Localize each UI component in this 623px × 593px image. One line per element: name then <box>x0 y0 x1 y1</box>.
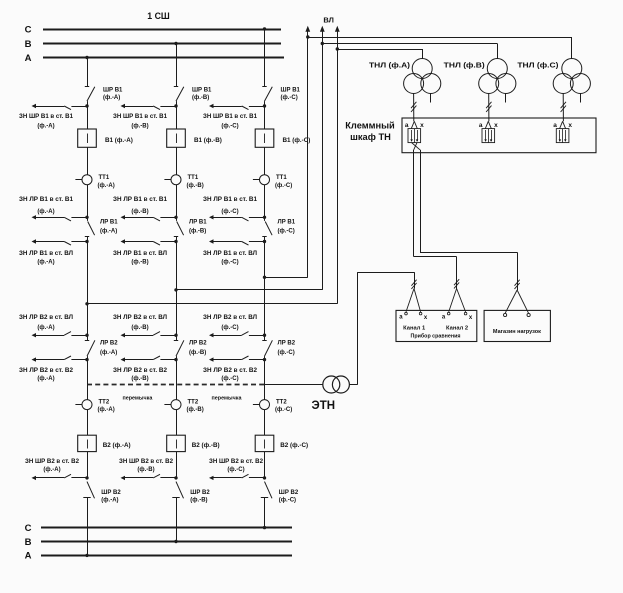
current transformer ТТ1 (С) <box>253 147 292 189</box>
svg-text:ЛР В2: ЛР В2 <box>189 341 207 347</box>
svg-text:В2 (ф.-В): В2 (ф.-В) <box>192 442 220 449</box>
svg-text:(ф.-А): (ф.-А) <box>37 208 54 215</box>
svg-text:В1 (ф.-С): В1 (ф.-С) <box>283 137 311 144</box>
wire ЛР В1 to branch node (С) <box>264 242 266 278</box>
svg-text:ЗН ЛР В2 в ст. В2: ЗН ЛР В2 в ст. В2 <box>19 368 74 374</box>
wire ЛР В1 to branch node (А) <box>87 242 89 304</box>
earth switch ЗН ШР В1 в ст. В1 (А) <box>19 104 89 130</box>
svg-text:ТНЛ (ф.В): ТНЛ (ф.В) <box>444 61 486 70</box>
svg-text:(ф.-В): (ф.-В) <box>131 122 148 129</box>
wire jumper to ЭТН <box>265 384 323 386</box>
svg-text:ТТ2: ТТ2 <box>99 399 110 405</box>
svg-text:(ф.-С): (ф.-С) <box>221 208 238 215</box>
bus A (top) <box>25 53 284 64</box>
earth switch ЗН ЛР В2 в ст. В2 (А) <box>19 356 89 382</box>
svg-text:ТТ1: ТТ1 <box>276 175 287 181</box>
svg-text:ШР В1: ШР В1 <box>103 87 123 93</box>
label ВЛ <box>323 16 334 25</box>
svg-text:(ф.-В): (ф.-В) <box>192 94 209 101</box>
wire bus to ШР В1 (С) <box>263 27 266 86</box>
circuit breaker В1 (А) <box>78 106 133 147</box>
svg-text:(ф.-А): (ф.-А) <box>37 258 54 265</box>
wire ТНЛ a to Канал 2 <box>414 150 457 277</box>
svg-text:ТТ1: ТТ1 <box>188 175 199 181</box>
svg-text:x: x <box>568 122 572 129</box>
wire branch to ВЛ riser (С) <box>265 32 308 278</box>
svg-text:(ф.-С): (ф.-С) <box>221 122 238 129</box>
stub ТНЛ (ф.А) terminal x <box>430 94 432 103</box>
earth switch ЗН ЛР В1 в ст. ВЛ (В) <box>113 239 178 265</box>
disconnector ШР В1 (В) <box>174 87 212 107</box>
earth switch ЗН ЛР В1 в ст. ВЛ (А) <box>19 239 89 265</box>
wire pair to Магазин terminals <box>505 278 528 314</box>
wire ЛР В1 to branch node (В) <box>176 242 178 290</box>
svg-text:ШР В2: ШР В2 <box>279 490 299 496</box>
svg-text:Прибор сравнения: Прибор сравнения <box>411 333 461 340</box>
svg-text:(ф.-С): (ф.-С) <box>278 349 295 356</box>
bus C (bottom) <box>25 523 292 534</box>
svg-text:(ф.-С): (ф.-С) <box>221 375 238 382</box>
svg-text:ЗН ШР В2 в ст. В2: ЗН ШР В2 в ст. В2 <box>209 459 264 465</box>
current transformer ТТ2 (В) <box>164 360 203 414</box>
disconnector ШР В1 (А) <box>85 87 123 107</box>
wire branch to ВЛ riser (В) <box>176 32 323 290</box>
earth switch ЗН ЛР В1 в ст. В1 (А) <box>32 185 89 221</box>
disconnector ЛР В1 (В) <box>174 217 207 241</box>
svg-text:ЗН ЛР В1 в ст. В1: ЗН ЛР В1 в ст. В1 <box>203 197 258 203</box>
earth switch ЗН ЛР В1 в ст. ВЛ (С) <box>203 239 266 265</box>
svg-text:Клеммный: Клеммный <box>345 121 395 131</box>
etalon transformer ЭТН <box>312 376 350 412</box>
current transformer ТТ2 (А) <box>75 360 114 414</box>
wire pair to Канал 2 terminals <box>449 277 466 312</box>
wire pair to Канал 1 terminals <box>406 278 421 312</box>
svg-text:x: x <box>494 122 498 129</box>
svg-text:В1 (ф.-В): В1 (ф.-В) <box>194 137 222 144</box>
disconnector ШР В2 (С) <box>261 482 299 530</box>
svg-text:(ф.-В): (ф.-В) <box>131 324 148 331</box>
disconnector ЛР В2 (В) <box>174 335 207 359</box>
svg-text:(ф.-В): (ф.-В) <box>131 375 148 382</box>
svg-text:ЗН ЛР В2 в ст. В2: ЗН ЛР В2 в ст. В2 <box>113 368 168 374</box>
svg-text:(ф.-А): (ф.-А) <box>101 497 118 504</box>
svg-text:ТТ1: ТТ1 <box>99 175 110 181</box>
ВЛ arrow (А) <box>335 26 340 32</box>
svg-text:В1 (ф.-А): В1 (ф.-А) <box>105 137 133 144</box>
svg-text:ЗН ШР В1 в ст. В1: ЗН ШР В1 в ст. В1 <box>203 114 258 120</box>
svg-text:(ф.-С): (ф.-С) <box>275 182 292 189</box>
svg-text:(ф.-С): (ф.-С) <box>281 94 298 101</box>
svg-text:x: x <box>420 122 424 129</box>
wire branch to ЛР В2 (С) <box>264 277 266 335</box>
svg-text:(ф.-А): (ф.-А) <box>43 466 60 473</box>
svg-text:B: B <box>25 537 32 548</box>
svg-text:ЗН ЛР В1 в ст. ВЛ: ЗН ЛР В1 в ст. ВЛ <box>113 251 167 257</box>
ВЛ arrow (С) <box>305 26 310 32</box>
svg-text:ВЛ: ВЛ <box>323 16 334 25</box>
svg-text:(ф.-А): (ф.-А) <box>98 406 115 413</box>
svg-text:(ф.-А): (ф.-А) <box>100 349 117 356</box>
svg-text:ШР В2: ШР В2 <box>190 490 210 496</box>
earth switch ЗН ЛР В1 в ст. В1 (С) <box>209 185 266 221</box>
svg-text:шкаф ТН: шкаф ТН <box>350 132 391 142</box>
circuit breaker В2 (В) <box>167 410 220 452</box>
svg-text:A: A <box>25 53 32 64</box>
earth switch ЗН ЛР В2 в ст. ВЛ (С) <box>209 332 266 338</box>
earth switch ЗН ШР В1 в ст. В1 (В) <box>113 104 178 130</box>
svg-text:(ф.-А): (ф.-А) <box>37 375 54 382</box>
current transformer ТТ2 (С) <box>253 360 292 414</box>
bus B (bottom) <box>25 537 292 548</box>
svg-text:(ф.-В): (ф.-В) <box>187 182 204 189</box>
svg-text:(ф.-В): (ф.-В) <box>187 406 204 413</box>
svg-text:a: a <box>405 122 409 129</box>
earth switch ЗН ЛР В2 в ст. ВЛ (А) <box>32 332 89 338</box>
wire ТНЛ (ф.С) secondary a <box>561 94 566 122</box>
disconnector ЛР В2 (А) <box>85 335 118 359</box>
earth switch ЗН ШР В1 в ст. В1 (С) <box>203 104 266 130</box>
svg-text:(ф.-В): (ф.-В) <box>131 258 148 265</box>
svg-text:ЭТН: ЭТН <box>312 400 336 412</box>
node branch А <box>85 302 88 305</box>
wire branch to ЛР В2 (А) <box>87 304 89 335</box>
svg-text:(ф.-С): (ф.-С) <box>227 466 244 473</box>
voltage transformer ТНЛ (ф.А) <box>369 59 441 94</box>
svg-text:перемычка: перемычка <box>212 395 243 401</box>
svg-text:ЗН ЛР В2 в ст. ВЛ: ЗН ЛР В2 в ст. ВЛ <box>113 315 167 321</box>
terminal block a-x at 414.3 <box>405 121 424 142</box>
svg-text:ЗН ШР В1 в ст. В1: ЗН ШР В1 в ст. В1 <box>19 114 74 120</box>
svg-text:(ф.-А): (ф.-А) <box>37 122 54 129</box>
svg-text:ЗН ЛР В2 в ст. В2: ЗН ЛР В2 в ст. В2 <box>203 368 258 374</box>
label ЗН ЛР В1 в ст. В1 (В) <box>113 197 168 215</box>
svg-text:(ф.-А): (ф.-А) <box>98 182 115 189</box>
node riser В <box>321 42 324 45</box>
disconnector ШР В2 (В) <box>172 482 210 544</box>
svg-text:ЗН ЛР В1 в ст. В1: ЗН ЛР В1 в ст. В1 <box>113 197 168 203</box>
earth switch ЗН ШР В2 в ст. В2 (В) <box>119 452 178 481</box>
svg-text:ЗН ШР В1 в ст. В1: ЗН ШР В1 в ст. В1 <box>113 114 168 120</box>
node branch В <box>174 288 177 291</box>
svg-text:Магазин нагрузок: Магазин нагрузок <box>493 329 541 335</box>
svg-text:ЗН ЛР В1 в ст. ВЛ: ЗН ЛР В1 в ст. ВЛ <box>19 251 73 257</box>
terminal block a-x at 488.3 <box>479 121 498 142</box>
earth switch ЗН ЛР В1 в ст. В1 (В) <box>121 185 178 221</box>
svg-text:C: C <box>25 523 32 534</box>
svg-text:В2 (ф.-С): В2 (ф.-С) <box>280 442 308 449</box>
svg-text:перемычка: перемычка <box>122 395 153 401</box>
label ЗН ЛР В2 в ст. ВЛ (С) <box>203 315 257 331</box>
svg-text:ШР В2: ШР В2 <box>101 490 121 496</box>
current transformer ТТ1 (А) <box>75 147 114 189</box>
earth switch ЗН ШР В2 в ст. В2 (А) <box>25 452 89 481</box>
svg-text:ТТ2: ТТ2 <box>276 399 287 405</box>
svg-text:a: a <box>553 122 557 129</box>
svg-text:Канал 1: Канал 1 <box>403 325 426 331</box>
voltage transformer ТНЛ (ф.В) <box>444 59 516 94</box>
svg-text:ТТ2: ТТ2 <box>188 399 199 405</box>
node riser А <box>336 47 339 50</box>
wire crossing below terminal block 1 <box>412 143 420 150</box>
stub ТНЛ (ф.В) terminal x <box>505 94 507 103</box>
svg-text:a: a <box>479 122 483 129</box>
svg-text:(ф.-В): (ф.-В) <box>189 349 206 356</box>
stub ТНЛ (ф.С) terminal x <box>580 94 582 103</box>
wire bus to ШР В1 (В) <box>174 42 177 86</box>
wire bus to ШР В1 (А) <box>85 56 88 86</box>
svg-text:(ф.-С): (ф.-С) <box>221 258 238 265</box>
wire riser to ТНЛ (ф.В) <box>322 44 497 59</box>
svg-text:(ф.-С): (ф.-С) <box>221 324 238 331</box>
svg-text:ЗН ЛР В1 в ст. В1: ЗН ЛР В1 в ст. В1 <box>19 197 74 203</box>
svg-text:ТНЛ (ф.А): ТНЛ (ф.А) <box>369 61 411 70</box>
svg-text:(ф.-С): (ф.-С) <box>279 497 296 504</box>
disconnector ЛР В1 (С) <box>262 217 295 241</box>
disconnector ШР В2 (А) <box>83 482 121 558</box>
svg-text:C: C <box>25 24 32 35</box>
wire branch to ВЛ riser (А) <box>87 32 338 304</box>
wire riser to ТНЛ (ф.С) <box>308 37 572 59</box>
terminal cabinet Клеммный шкаф ТН box <box>345 118 596 153</box>
disconnector ЛР В1 (А) <box>85 217 118 241</box>
svg-text:B: B <box>25 39 32 50</box>
wire branch to ЛР В2 (В) <box>176 290 178 335</box>
disconnector ШР В1 (С) <box>262 87 300 107</box>
svg-text:ЗН ЛР В2 в ст. ВЛ: ЗН ЛР В2 в ст. ВЛ <box>203 315 257 321</box>
svg-text:(ф.-А): (ф.-А) <box>103 94 120 101</box>
ВЛ arrow (В) <box>320 26 325 32</box>
wire ТНЛ x to Магазин <box>420 150 518 278</box>
svg-text:ЗН ШР В2 в ст. В2: ЗН ШР В2 в ст. В2 <box>119 459 174 465</box>
svg-text:(ф.-А): (ф.-А) <box>37 324 54 331</box>
svg-text:(ф.-С): (ф.-С) <box>275 406 292 413</box>
wire riser to ТНЛ (ф.А) <box>337 49 422 59</box>
earth switch ЗН ШР В2 в ст. В2 (С) <box>209 452 266 481</box>
svg-text:ЗН ЛР В2 в ст. ВЛ: ЗН ЛР В2 в ст. ВЛ <box>19 315 73 321</box>
dashed jumper перемычка <box>87 385 265 402</box>
wire ТНЛ (ф.А) secondary a <box>411 94 416 122</box>
current transformer ТТ1 (В) <box>164 147 203 189</box>
node branch С <box>263 276 266 279</box>
earth switch ЗН ЛР В2 в ст. В2 (В) <box>113 356 178 382</box>
comparison instrument Прибор сравнения box <box>396 310 477 341</box>
terminal block a-x at 562.6 <box>553 121 572 142</box>
earth switch ЗН ЛР В2 в ст. ВЛ (В) <box>121 332 178 338</box>
svg-text:ШР В1: ШР В1 <box>192 87 212 93</box>
svg-text:(ф.-А): (ф.-А) <box>100 228 117 235</box>
svg-text:A: A <box>25 551 32 562</box>
svg-text:ЛР В1: ЛР В1 <box>100 220 118 226</box>
wire ТНЛ (ф.В) secondary a <box>486 94 491 122</box>
svg-text:ШР В1: ШР В1 <box>281 87 301 93</box>
label 1 СШ <box>147 11 170 21</box>
voltage transformer ТНЛ (ф.С) <box>517 59 590 94</box>
disconnector ЛР В2 (С) <box>262 335 295 359</box>
circuit breaker В1 (С) <box>255 106 310 147</box>
svg-text:В2 (ф.-А): В2 (ф.-А) <box>103 442 131 449</box>
label ЗН ЛР В1 в ст. В1 (С) <box>203 197 258 215</box>
bus A (bottom) <box>25 551 292 562</box>
bus C (top) <box>25 24 281 35</box>
svg-text:Канал 2: Канал 2 <box>446 325 468 331</box>
svg-text:ЛР В1: ЛР В1 <box>278 220 296 226</box>
label ЗН ЛР В2 в ст. ВЛ (В) <box>113 315 167 331</box>
circuit breaker В2 (С) <box>255 410 308 452</box>
earth switch ЗН ЛР В2 в ст. В2 (С) <box>203 356 266 382</box>
svg-text:(ф.-С): (ф.-С) <box>278 228 295 235</box>
circuit breaker В1 (В) <box>167 106 222 147</box>
svg-text:(ф.-В): (ф.-В) <box>137 466 154 473</box>
svg-text:ЗН ШР В2 в ст. В2: ЗН ШР В2 в ст. В2 <box>25 459 80 465</box>
circuit breaker В2 (А) <box>78 410 131 452</box>
wire ЭТН to Канал 1 <box>349 272 414 384</box>
svg-text:(ф.-В): (ф.-В) <box>131 208 148 215</box>
svg-text:ЛР В2: ЛР В2 <box>100 341 118 347</box>
label ЗН ЛР В1 в ст. В1 (А) <box>19 197 74 215</box>
svg-text:ТНЛ (ф.С): ТНЛ (ф.С) <box>517 61 559 70</box>
svg-text:ЗН ЛР В1 в ст. ВЛ: ЗН ЛР В1 в ст. ВЛ <box>203 251 257 257</box>
bus B (top) <box>25 39 281 50</box>
node riser С <box>306 35 309 38</box>
label ЗН ЛР В2 в ст. ВЛ (А) <box>19 315 73 331</box>
svg-text:ЛР В1: ЛР В1 <box>189 220 207 226</box>
svg-text:(ф.-В): (ф.-В) <box>190 497 207 504</box>
load box Магазин нагрузок <box>484 310 550 341</box>
svg-text:1 СШ: 1 СШ <box>147 11 170 21</box>
svg-text:(ф.-В): (ф.-В) <box>189 228 206 235</box>
svg-text:ЛР В2: ЛР В2 <box>278 341 296 347</box>
